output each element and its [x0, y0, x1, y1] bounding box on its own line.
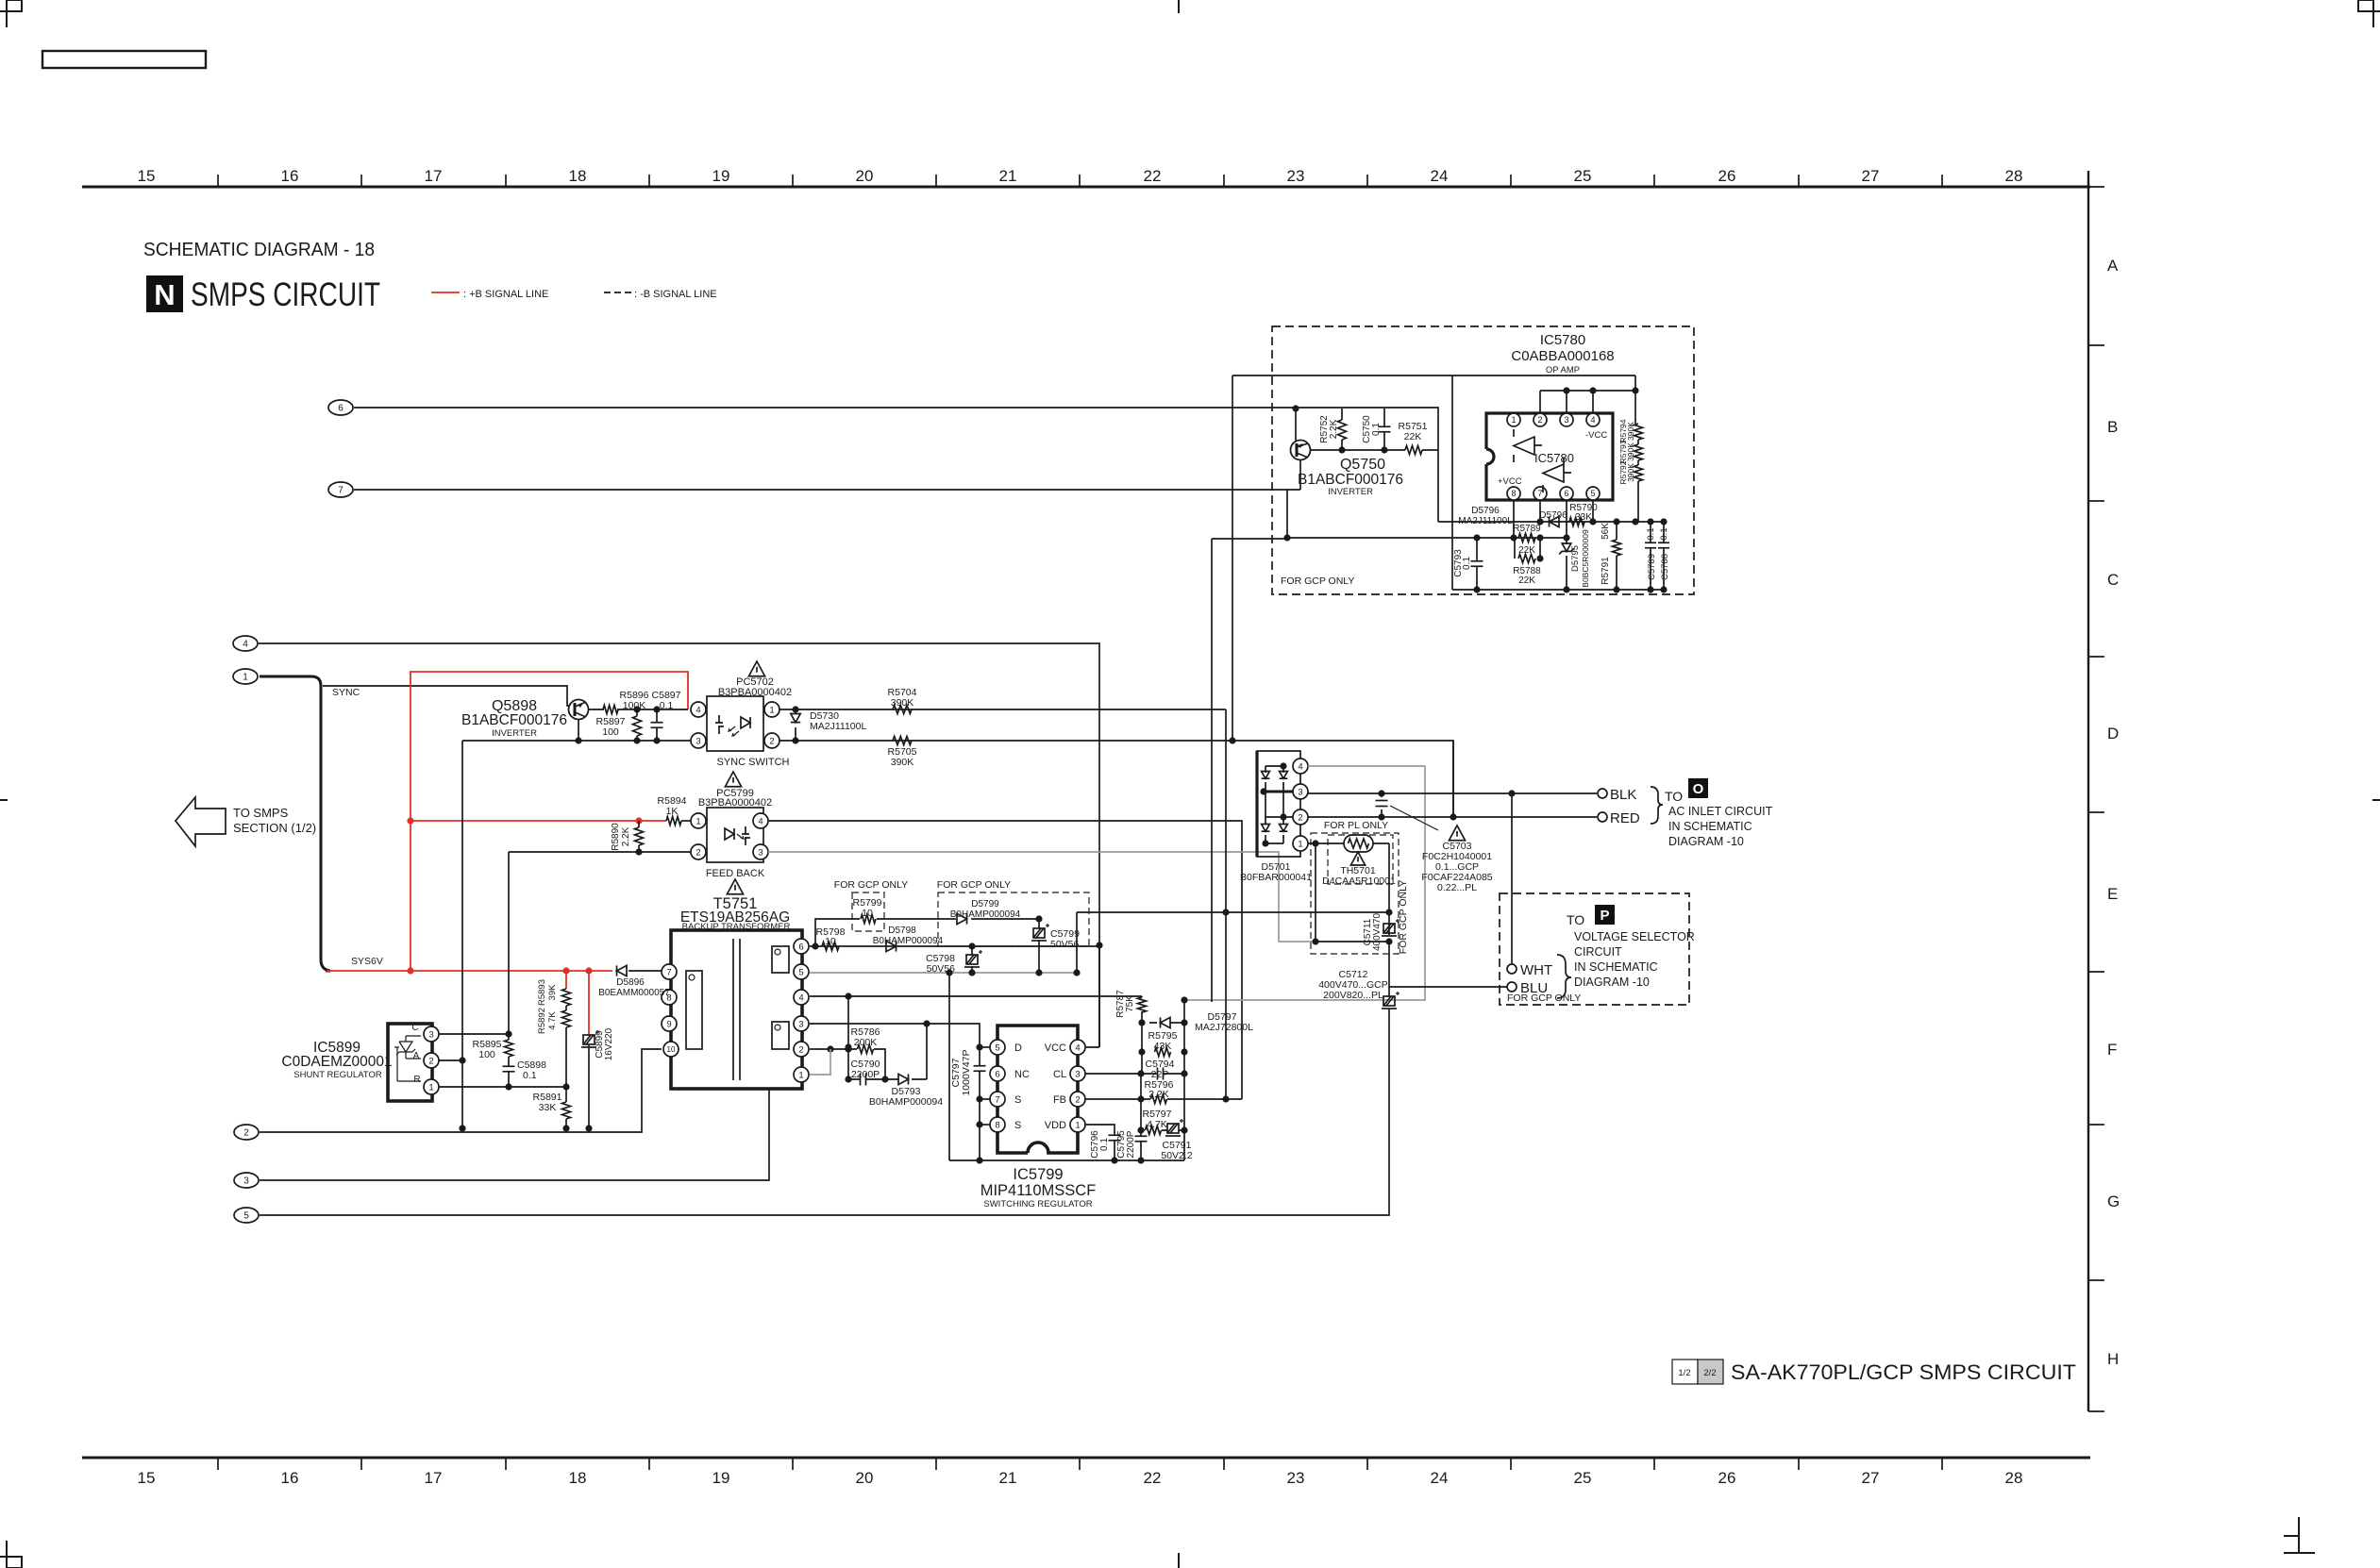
svg-text:R5890: R5890 [611, 823, 621, 851]
wire gray return row to right [1076, 912, 1078, 973]
svg-text:3: 3 [1564, 415, 1568, 425]
pin 5 of IC5799 [990, 1040, 1005, 1055]
pin 3 of T5751 [794, 1016, 809, 1031]
capacitor C5711 electrolytic [1382, 919, 1400, 936]
svg-text:22: 22 [1144, 1469, 1162, 1487]
section letter N box [146, 275, 183, 312]
svg-text:INVERTER: INVERTER [492, 728, 537, 739]
svg-text:5: 5 [1590, 489, 1595, 498]
dashed box FOR PL ONLY around TH5701 [1328, 835, 1393, 884]
terminal RED [1598, 812, 1607, 822]
svg-text:TO SMPS: TO SMPS [233, 806, 289, 820]
svg-text:39K: 39K [547, 984, 558, 1001]
svg-text:6: 6 [995, 1069, 999, 1079]
pin 1 of D5701 [1293, 836, 1308, 851]
svg-text:B3PBA0000402: B3PBA0000402 [698, 797, 772, 809]
wire connector 2 to transformer pin10 and ground row [260, 1049, 662, 1132]
wire SYNC branch to Q5898 base [323, 686, 570, 706]
capacitor C5798 electrolytic [971, 946, 973, 955]
pin 1 of IC5799 [1070, 1117, 1085, 1132]
svg-text:1: 1 [1511, 415, 1516, 425]
svg-text:SCHEMATIC DIAGRAM - 18: SCHEMATIC DIAGRAM - 18 [143, 240, 375, 260]
svg-text:B0HAMP000094: B0HAMP000094 [869, 1096, 943, 1108]
svg-text:NC: NC [1014, 1069, 1030, 1080]
pin 2 of PC5799 [691, 844, 706, 859]
svg-text:MA2J72800L: MA2J72800L [1195, 1022, 1253, 1033]
red wire SYS6V row [327, 970, 612, 972]
svg-text:2200P: 2200P [851, 1069, 880, 1080]
legend +B signal line [431, 292, 460, 293]
svg-text:0.1: 0.1 [1659, 527, 1669, 540]
svg-text:0.1: 0.1 [1099, 1138, 1110, 1151]
wire Q5750 output row with R5751 [1311, 449, 1438, 451]
resistor R5751 [1405, 446, 1422, 455]
svg-text:D: D [1014, 1043, 1022, 1054]
svg-text:0.1: 0.1 [660, 700, 674, 711]
wire T5751 pin5 gray row [810, 972, 1077, 974]
svg-text:INVERTER: INVERTER [1328, 487, 1373, 497]
warning triangle PC5702 [748, 661, 764, 676]
svg-text:SYNC: SYNC [332, 687, 360, 698]
pin 4 of PC5799 [753, 813, 768, 828]
svg-text:21: 21 [999, 1469, 1017, 1487]
capacitor C5899 electrolytic [581, 1030, 599, 1047]
svg-text:5: 5 [798, 967, 803, 977]
svg-text:MA2J11100L: MA2J11100L [810, 721, 866, 732]
wire RED row [1308, 816, 1597, 818]
svg-text:10: 10 [825, 936, 836, 947]
warning triangle TH5701 [1350, 852, 1365, 865]
svg-text:3: 3 [1298, 787, 1302, 797]
warning triangle PC5799 [725, 772, 741, 787]
wire IC5799 ground bus [949, 1159, 1184, 1161]
svg-text:4: 4 [1075, 1043, 1080, 1053]
wire PC5799 pin3 gray return [768, 852, 1316, 942]
svg-text:CL: CL [1053, 1069, 1066, 1080]
capacitor C5703 [1381, 793, 1383, 817]
capacitor C5795 [1140, 1074, 1142, 1160]
transformer T5751 body [671, 930, 802, 1089]
svg-text:390K: 390K [891, 697, 914, 709]
wire connector 1 thick with bend down (SYS6V feed) [260, 676, 330, 971]
svg-text:16: 16 [281, 167, 299, 185]
svg-text:4: 4 [758, 816, 763, 826]
wire BLU to C5712 node [1389, 986, 1507, 988]
dashed box FOR GCP ONLY around D5799 [938, 892, 1089, 946]
svg-text:390K: 390K [891, 757, 914, 768]
wire connector 7 to Q5750 emitter row [354, 489, 1300, 491]
svg-text:F: F [2107, 1041, 2117, 1059]
svg-text:R5893: R5893 [537, 979, 547, 1006]
svg-text:S: S [1014, 1120, 1021, 1131]
svg-text:VCC: VCC [1045, 1043, 1066, 1054]
svg-text:BLU: BLU [1520, 980, 1548, 996]
diode D5896 [629, 970, 662, 972]
svg-text:O: O [1693, 781, 1704, 797]
connector 1 [233, 669, 258, 684]
capacitor C5712 electrolytic [1382, 992, 1400, 1009]
transformer core lines [732, 939, 734, 1080]
diode D5797 [1161, 1017, 1171, 1027]
svg-text:FEED BACK: FEED BACK [706, 868, 765, 879]
svg-text:C5789: C5789 [1647, 554, 1657, 580]
footer page boxes 1/2 2/2 [1672, 1359, 1698, 1384]
svg-text:7: 7 [666, 967, 671, 977]
pin 2 of IC5780 [1534, 413, 1547, 426]
zener diode D5795 [1566, 538, 1567, 590]
pin 4 of D5701 [1293, 759, 1308, 774]
wire R5751 output down to lower cluster row [1437, 450, 1439, 522]
svg-text:MIP4110MSSCF: MIP4110MSSCF [980, 1182, 1097, 1199]
diode D5799 [957, 913, 967, 924]
diode D5730 [795, 709, 796, 741]
svg-text:B0FBAR000041: B0FBAR000041 [1240, 872, 1312, 883]
svg-text:4.7K: 4.7K [1147, 1119, 1167, 1130]
svg-text:390K: 390K [1626, 463, 1635, 482]
svg-text:R: R [413, 1075, 420, 1085]
transformer primary winding box [686, 971, 702, 1049]
wire pin6 stub to D5795 [1566, 501, 1567, 538]
svg-text:9: 9 [666, 1019, 671, 1029]
brace to AC inlet [1651, 787, 1663, 824]
svg-text:7: 7 [995, 1094, 999, 1105]
pin 2 of D5701 [1293, 809, 1308, 825]
pin 1 of IC5780 [1507, 413, 1520, 426]
wire Q5898 emitter to bottom row [578, 719, 579, 741]
svg-text:0.1: 0.1 [1462, 557, 1472, 570]
wire ground bus of IC5780 cluster [1452, 375, 1664, 590]
wire connector 5 return row to C5712/C5711 chain [260, 911, 1389, 1215]
resistor R5788 parallel loop [1515, 538, 1540, 559]
svg-text:22K: 22K [1404, 431, 1422, 442]
wire pin7 stub [1539, 501, 1541, 522]
capacitor C5796 [1109, 1134, 1121, 1136]
diode D5796 [1550, 516, 1560, 526]
svg-text:B3PBA0000402: B3PBA0000402 [718, 687, 792, 698]
svg-text:FOR PL ONLY: FOR PL ONLY [1324, 820, 1388, 831]
resistor R5704 [893, 706, 912, 714]
wire IC5799 pin8 stub [980, 1124, 990, 1126]
svg-text:2.2K: 2.2K [1148, 1089, 1169, 1100]
capacitor C5750 [1383, 409, 1385, 450]
svg-text:-VCC: -VCC [1585, 430, 1607, 441]
svg-text:B0EAMM000057: B0EAMM000057 [598, 988, 670, 998]
wire D5793 row up to pin3 row [926, 1024, 928, 1079]
svg-text:56K: 56K [1601, 523, 1611, 540]
resistor R5797 [1146, 1126, 1162, 1135]
pin 3 of IC5899 [424, 1026, 439, 1042]
warning triangle T5751 [727, 879, 743, 894]
svg-text:24: 24 [1431, 167, 1449, 185]
wire PC5799 pin4 to FB net vertical [768, 821, 1242, 1099]
svg-text:B0BC5R000009: B0BC5R000009 [1581, 529, 1590, 588]
wire FB net vertical to y967 row [1225, 709, 1227, 1099]
resistor R5796 [1151, 1095, 1167, 1104]
svg-text:OP AMP: OP AMP [1546, 365, 1580, 375]
svg-text:1: 1 [696, 816, 700, 826]
red wire stub to R5893 [565, 971, 567, 989]
svg-text:SMPS CIRCUIT: SMPS CIRCUIT [191, 276, 380, 313]
pin 1 of T5751 [794, 1067, 809, 1082]
arrow TO SMPS SECTION (1/2) [176, 797, 226, 846]
svg-text:AC INLET CIRCUIT: AC INLET CIRCUIT [1668, 805, 1773, 818]
pin 4 of PC5702 [691, 702, 706, 717]
wire IC5899 pin3 row [439, 1033, 509, 1035]
svg-text:33K: 33K [539, 1102, 557, 1113]
svg-text:1: 1 [243, 673, 248, 683]
svg-text:S: S [1014, 1094, 1021, 1106]
svg-text:A: A [413, 1051, 420, 1061]
svg-text:2: 2 [1298, 812, 1302, 823]
svg-text:6: 6 [1564, 489, 1568, 498]
red wire +B net vertical and PC5702 pin4 feed [411, 672, 688, 971]
connector 6 [328, 400, 353, 415]
wire Q5898 bottom row to PC5702 pin3 [462, 740, 691, 742]
svg-text:D5798: D5798 [888, 926, 916, 936]
svg-text:4: 4 [243, 640, 248, 650]
wire pin5 net down to IC5799 ground bus [948, 973, 950, 1160]
connector 4 [233, 636, 258, 651]
capacitor C5797 [979, 1047, 980, 1160]
svg-text:DIAGRAM -10: DIAGRAM -10 [1574, 976, 1650, 989]
svg-text:25: 25 [1574, 1469, 1592, 1487]
wire x1284 vertical [1212, 539, 1287, 1002]
svg-text:B0HAMP000094: B0HAMP000094 [873, 936, 944, 946]
svg-text:28: 28 [2005, 1469, 2023, 1487]
svg-text:8: 8 [995, 1120, 999, 1130]
connector 5 [234, 1208, 259, 1223]
resistor R5705 [893, 737, 912, 745]
pin 9 of T5751 [662, 1016, 677, 1031]
svg-text:+VCC: +VCC [1498, 476, 1522, 487]
pin 6 of IC5780 [1560, 487, 1573, 500]
wire bottom row down to IC5899 net [461, 741, 463, 1128]
capacitor C5793 [1476, 538, 1478, 590]
wire vertical x899 from gray row to C5790 row [847, 996, 849, 1079]
wire pin2 row riser to RED [1452, 741, 1454, 817]
svg-text:4: 4 [798, 993, 803, 1003]
svg-text:2200P: 2200P [1126, 1130, 1136, 1158]
zener symbol inside IC5899 [394, 1036, 421, 1081]
capacitor C5794 [1157, 1068, 1159, 1080]
capacitor C5799 electrolytic [1038, 919, 1040, 928]
resistor R5789 [1518, 534, 1535, 542]
wire Q5750 collector [1295, 409, 1297, 441]
wire PC5702 pin1 row [779, 709, 1226, 710]
svg-text:20: 20 [856, 167, 874, 185]
pin 8 of T5751 [662, 990, 677, 1005]
wire IC5780 supply row y414 [1540, 391, 1635, 413]
pin 3 of PC5702 [691, 733, 706, 748]
svg-text:SHUNT REGULATOR: SHUNT REGULATOR [293, 1070, 382, 1080]
svg-text:5: 5 [995, 1043, 999, 1053]
svg-text:2: 2 [769, 736, 774, 746]
wire IC5799 VDD row with C5796 [1085, 1125, 1115, 1160]
svg-text:4: 4 [1590, 415, 1595, 425]
svg-text:50V56: 50V56 [1050, 939, 1080, 950]
svg-text:6: 6 [798, 942, 803, 952]
svg-text:2/2: 2/2 [1703, 1368, 1716, 1378]
svg-text:2: 2 [428, 1056, 433, 1066]
svg-text:4: 4 [1298, 761, 1302, 772]
svg-text:22: 22 [1144, 167, 1162, 185]
svg-text:TO: TO [1567, 912, 1584, 927]
svg-text:28: 28 [2005, 167, 2023, 185]
resistor R5752 [1341, 409, 1343, 450]
svg-text:2: 2 [798, 1044, 803, 1055]
dashed box FOR GCP ONLY around R5799 [852, 892, 884, 931]
svg-text:D5796: D5796 [1471, 506, 1500, 516]
svg-text:VOLTAGE SELECTOR: VOLTAGE SELECTOR [1574, 930, 1695, 943]
wire Q5750 emitter [1299, 459, 1301, 490]
svg-text:10: 10 [667, 1045, 676, 1054]
pin 10 of T5751 [663, 1042, 679, 1057]
wire pin8 stub [1513, 501, 1515, 538]
wire R5787 bottom column [1141, 1023, 1143, 1074]
diode D5793 [885, 1078, 927, 1080]
svg-text:17: 17 [425, 1469, 443, 1487]
wire IC5899 pin1 row [439, 1086, 566, 1088]
pin 8 of IC5799 [990, 1117, 1005, 1132]
transformer secondary winding box top [772, 946, 789, 973]
svg-text:SWITCHING REGULATOR: SWITCHING REGULATOR [983, 1199, 1092, 1209]
switching regulator IC5799 body [997, 1026, 1078, 1153]
pin 6 of T5751 [794, 939, 809, 954]
svg-text:SA-AK770PL/GCP SMPS CIRCUIT: SA-AK770PL/GCP SMPS CIRCUIT [1731, 1360, 2076, 1384]
svg-text:10: 10 [862, 908, 873, 919]
svg-text:100: 100 [478, 1049, 495, 1060]
svg-text:5: 5 [243, 1211, 249, 1222]
wire T5751 pin3 row to IC5799 pin5 [810, 1024, 980, 1047]
pin 5 of T5751 [794, 964, 809, 979]
svg-text:400V470: 400V470 [1372, 913, 1383, 951]
resistor R5895 [508, 1034, 510, 1040]
svg-text:B0HAMP000094: B0HAMP000094 [950, 909, 1021, 920]
pin 7 of T5751 [662, 964, 677, 979]
svg-text:0.22...PL: 0.22...PL [1437, 882, 1477, 893]
svg-text:D5799: D5799 [971, 899, 999, 909]
svg-text:VDD: VDD [1045, 1120, 1066, 1131]
svg-text:23: 23 [1287, 1469, 1305, 1487]
svg-text:26: 26 [1718, 1469, 1736, 1487]
svg-text:7: 7 [338, 486, 344, 496]
svg-text:IC5780: IC5780 [1534, 451, 1574, 465]
svg-text:27: 27 [1862, 1469, 1880, 1487]
terminal BLK [1598, 789, 1607, 798]
wire lower cluster row y570 [1287, 537, 1567, 539]
svg-text:25: 25 [1574, 167, 1592, 185]
capacitor C5789 [1650, 522, 1651, 590]
pin 3 of IC5799 [1070, 1066, 1085, 1081]
empty title box top-left [42, 51, 206, 68]
svg-text:SYS6V: SYS6V [351, 956, 383, 967]
pin 7 of IC5780 [1534, 487, 1547, 500]
connector 2 [234, 1125, 259, 1140]
wire connector 3 row [260, 1089, 769, 1180]
svg-text:BLK: BLK [1610, 787, 1636, 803]
svg-text:FOR GCP ONLY: FOR GCP ONLY [1398, 880, 1409, 954]
svg-text:R5892: R5892 [537, 1008, 547, 1034]
svg-text:B1ABCF000176: B1ABCF000176 [1298, 472, 1403, 488]
legend -B signal line [604, 292, 631, 293]
svg-text:3: 3 [798, 1019, 803, 1029]
svg-text:FOR GCP ONLY: FOR GCP ONLY [937, 879, 1011, 891]
svg-text:C: C [2107, 571, 2119, 589]
wire PC5799 pin2 row [509, 851, 691, 853]
wire IC5780 input from node at x1306 [1232, 375, 1635, 741]
wire IC5780 lower cluster row y553 [1438, 521, 1664, 523]
svg-text:D: D [2107, 725, 2119, 742]
svg-text:1K: 1K [666, 806, 679, 817]
svg-text:390K: 390K [1626, 422, 1635, 441]
svg-text:20: 20 [856, 1469, 874, 1487]
op-amp IC5780 body [1486, 413, 1613, 500]
svg-text:200K: 200K [854, 1037, 878, 1048]
svg-text:7: 7 [1537, 489, 1542, 498]
junction dots on ground row [459, 1125, 465, 1131]
wire TH5701 output down [1388, 843, 1390, 911]
resistor R5786 [858, 1045, 874, 1054]
thermistor TH5701 [1308, 842, 1389, 844]
resistor chain R5794 R5793 R5792 [1634, 375, 1636, 424]
svg-text:TO: TO [1665, 789, 1683, 804]
svg-text:1: 1 [1075, 1120, 1080, 1130]
page border frame [82, 167, 2120, 1487]
svg-text:0.1: 0.1 [1646, 527, 1656, 540]
wire IC5899 pin2 row [439, 1059, 462, 1061]
svg-text:IC5780: IC5780 [1540, 332, 1585, 348]
pin 7 of IC5799 [990, 1092, 1005, 1107]
warning triangle C5703 [1449, 826, 1465, 841]
dashed box FOR GCP ONLY outer [1311, 833, 1399, 954]
svg-text:1: 1 [1298, 839, 1302, 849]
wire Q5898 collector row to PC5702 pin4 [588, 709, 688, 710]
wire BLK row [1308, 792, 1597, 794]
capacitor C5791 electrolytic [1165, 1119, 1183, 1136]
svg-text:1: 1 [769, 705, 774, 715]
resistor R5797 and C5791 row [1141, 1129, 1184, 1131]
pin 8 of IC5780 [1507, 487, 1520, 500]
svg-text:2: 2 [1537, 415, 1542, 425]
svg-text:H: H [2107, 1350, 2119, 1368]
wire PL bypass link [1316, 843, 1389, 942]
svg-text:A: A [2107, 257, 2119, 275]
wire connector 6 to Q5750 / C5750 row [354, 408, 1438, 450]
wire IC5799 CL row with C5794 [1085, 1073, 1184, 1075]
pin 6 of IC5799 [990, 1066, 1005, 1081]
wire right column x1255 [1183, 1000, 1185, 1160]
wire IC5799 pin7 stub [980, 1098, 990, 1100]
svg-text:4: 4 [696, 705, 700, 715]
svg-text:23: 23 [1287, 167, 1305, 185]
resistor R5787 [1141, 996, 1143, 997]
connector 7 [328, 482, 353, 497]
svg-text:2: 2 [243, 1128, 249, 1139]
svg-text:22K: 22K [1518, 545, 1535, 556]
svg-text:0.1: 0.1 [1371, 423, 1382, 436]
svg-text:WHT: WHT [1520, 962, 1552, 978]
svg-text:1/2: 1/2 [1678, 1368, 1690, 1378]
svg-text:26: 26 [1718, 167, 1736, 185]
svg-text:15: 15 [138, 1469, 156, 1487]
capacitor C5793 bottom dot [1536, 555, 1543, 561]
svg-text:FB: FB [1053, 1094, 1066, 1106]
svg-text:100: 100 [602, 726, 619, 738]
resistor R5892 [565, 1006, 567, 1010]
svg-text:IN SCHEMATIC: IN SCHEMATIC [1574, 960, 1658, 974]
red wire R5894 feed row [411, 820, 666, 822]
pin 5 of IC5780 [1586, 487, 1600, 500]
